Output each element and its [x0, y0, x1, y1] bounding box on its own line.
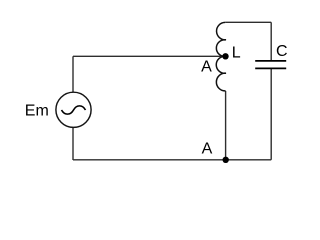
wire right vertical upper (capacitor top lead) — [270, 22, 272, 61]
label A (tap node) — [201, 58, 212, 75]
wire left vertical lower (source bottom lead) — [72, 127, 74, 160]
AC source sine wave — [62, 106, 86, 114]
capacitor C bottom plate — [255, 67, 286, 69]
svg-text:Em: Em — [25, 102, 49, 119]
svg-text:A: A — [201, 58, 212, 75]
wire right vertical lower (capacitor bottom lead) — [270, 69, 272, 160]
wire inductor bottom lead vertical — [225, 91, 227, 160]
junction dot at bottom node A — [223, 157, 229, 163]
AC source Em (circle) — [56, 92, 91, 127]
label Em — [25, 102, 49, 119]
svg-text:C: C — [276, 43, 288, 60]
inductor L coil (4 loops, tapped) — [216, 22, 226, 91]
wire left vertical upper (source top lead) — [72, 56, 74, 92]
wire top horizontal from coil to capacitor branch — [225, 21, 271, 23]
junction dot at inductor tap (node A/L) — [222, 53, 228, 59]
label L — [232, 45, 241, 62]
label C — [276, 43, 288, 60]
wire bottom horizontal — [73, 159, 271, 161]
capacitor C top plate — [255, 60, 286, 62]
svg-text:L: L — [232, 45, 241, 62]
label A (bottom node) — [202, 141, 213, 158]
svg-text:A: A — [202, 141, 213, 158]
wire top-left horizontal from source branch to inductor tap — [73, 55, 226, 57]
